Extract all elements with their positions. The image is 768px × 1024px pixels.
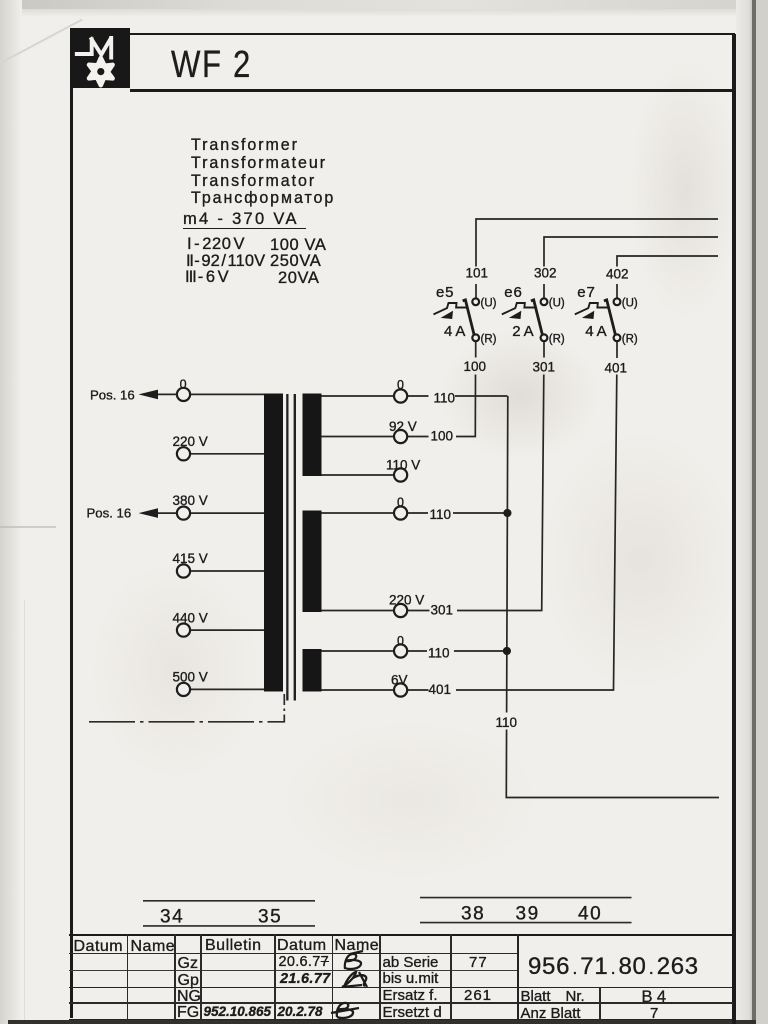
date 20.2.78 handwritten: [278, 1004, 323, 1019]
label ab Serie: [383, 954, 439, 971]
value 77: [469, 954, 488, 971]
underline under m4-370VA: [183, 228, 306, 230]
primary terminal 415V: [173, 551, 265, 578]
wire label 110 on vertical trunk: [493, 713, 520, 731]
row label FG: [177, 1004, 199, 1022]
date 20.6.77: [279, 954, 330, 970]
header Datum: [74, 938, 124, 956]
wire bus 302 to right edge: [544, 237, 718, 298]
row label Gp: [178, 972, 199, 990]
column line Name/label: [174, 934, 176, 1020]
transformer secondary winding III bar: [303, 649, 322, 692]
terminal strip numbers 34 35: [143, 901, 315, 928]
wire 401 drop from e7 to terminal 6V: [407, 341, 617, 690]
signature FG row: [331, 1003, 359, 1018]
title text WF 2: [171, 44, 252, 87]
wire 301 drop from e6 to terminal 220V: [407, 341, 544, 610]
junction dot at 110/winding III: [503, 647, 511, 655]
transformer secondary winding II bar: [303, 511, 322, 613]
secondary terminal 0 (winding III): [322, 634, 450, 661]
column line Datum/Name: [127, 934, 129, 1020]
title block horizontal line under FG row: [69, 1019, 733, 1021]
date 21.6.77 handwritten: [280, 971, 330, 987]
secondary terminal 92V: [322, 419, 454, 444]
value B4: [642, 988, 668, 1007]
logo M mark and flower: [70, 28, 130, 88]
right page edge: white margin, dark page edge line, grey beyond: [736, 0, 753, 1024]
label Anz Blatt: [521, 1005, 581, 1022]
chassis chain line vertical: [283, 694, 285, 723]
header Name: [131, 938, 176, 956]
header Bulletin: [205, 937, 261, 955]
paper stains: [440, 330, 600, 460]
value 261: [464, 987, 492, 1004]
title block horizontal line under Gz row: [69, 970, 518, 971]
page edge dark line: [752, 0, 756, 1024]
label Ersetzt d: [383, 1004, 442, 1021]
drawing frame left border: [70, 29, 73, 1018]
secondary terminal 0 (winding II): [322, 496, 452, 523]
secondary terminal 0 (winding I): [322, 378, 456, 406]
wire 110 from terminal 0 (winding III): [407, 650, 507, 652]
title block horizontal line under header row: [69, 953, 518, 955]
wire 110 from terminal 0 (winding II): [407, 512, 507, 514]
chassis chain line horizontal: [89, 721, 285, 723]
row label NG: [177, 988, 201, 1006]
column line 77/number box: [517, 934, 519, 1020]
wire 110 node A horizontal from terminal 0: [407, 395, 507, 397]
bottom scan dark band: [8, 1020, 756, 1024]
bulletin number handwritten: [204, 1004, 272, 1019]
faint left margin crease: [0, 526, 56, 528]
winding ratings table: [187, 235, 245, 254]
wire bus 101 to right edge: [476, 219, 718, 298]
drawing number 956.71.80.263: [528, 953, 699, 981]
column line Blatt Nr/B4: [599, 987, 601, 1020]
row label Gz: [178, 955, 198, 973]
multilingual designation block: [191, 137, 335, 208]
title block horizontal line under NG row: [69, 1002, 733, 1003]
value 7: [650, 1005, 658, 1022]
top-left corner crease: [0, 19, 82, 67]
column line Name2/ab Serie: [379, 934, 381, 1020]
secondary terminal 6V: [322, 673, 452, 698]
circuit breaker e5: [434, 284, 497, 346]
title bar box: [130, 89, 736, 92]
primary terminal 0: [90, 377, 264, 402]
wire bus 402 to right edge: [617, 256, 718, 298]
transformer core line 1: [286, 394, 288, 701]
title block top border: [69, 934, 733, 936]
drawing frame right border: [732, 34, 736, 1024]
label Ersatz f.: [383, 987, 438, 1004]
terminal strip numbers 38 39 40: [420, 898, 632, 925]
secondary terminal 220V: [322, 593, 454, 618]
label Blatt Nr.: [521, 988, 585, 1005]
junction dot at 110/winding II: [503, 509, 511, 517]
primary terminal 220V: [173, 434, 265, 460]
column line Datum/Name 2: [332, 934, 334, 1020]
logo black square: [70, 28, 130, 88]
primary terminal 380V: [87, 493, 265, 521]
transformer primary winding bar: [264, 394, 283, 692]
top scan edge band: [0, 0, 768, 9]
transformer secondary winding I bar: [303, 394, 322, 477]
left scan edge band: [0, 0, 22, 1024]
column line Bulletin/Datum: [274, 934, 276, 1020]
column line label/Bulletin: [200, 934, 202, 1020]
drawing frame top border: [70, 33, 735, 36]
secondary terminal 110V (unconnected): [322, 458, 421, 482]
wire 100 drop from e5 to terminal 92V: [407, 341, 475, 436]
header Name 2: [335, 937, 380, 955]
primary terminal 500V: [173, 670, 265, 697]
title block horizontal line under Gp row: [69, 987, 733, 989]
header Datum 2: [277, 937, 327, 955]
signature Gz row: [345, 951, 363, 969]
label bis u.mit: [383, 970, 439, 987]
transformer core line 2: [294, 394, 296, 701]
type / power line: [183, 210, 299, 229]
primary terminal 440V: [173, 611, 265, 637]
wire 110 vertical trunk down to bottom: [506, 396, 719, 798]
signature Gp row: [342, 972, 367, 987]
circuit breaker e7: [575, 284, 638, 346]
circuit breaker e6: [502, 284, 565, 346]
column line ab Serie/77: [450, 934, 452, 1020]
